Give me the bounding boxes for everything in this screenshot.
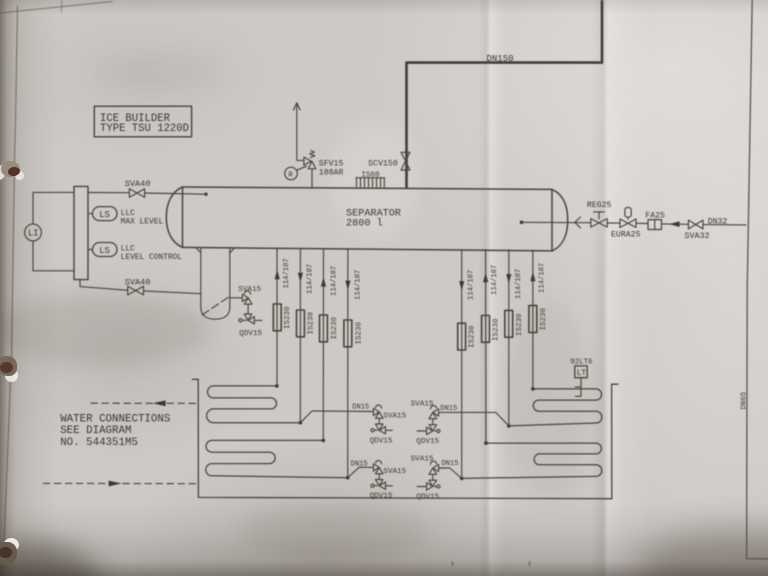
wire DN32 supply from right (703, 218, 746, 227)
wire separator outlet 6 (485, 250, 487, 444)
valve QDV15 cluster4 (416, 480, 440, 502)
orifice IS230 no3 (320, 315, 340, 342)
svg-text:IS230: IS230 (516, 313, 524, 336)
svg-text:DN15: DN15 (442, 460, 459, 468)
svg-text:SVA32: SVA32 (685, 231, 710, 241)
svg-text:R: R (288, 171, 293, 179)
valve SVA40 bottom (80, 278, 201, 295)
water connection out (dashed) (91, 400, 198, 406)
wire DN15 to cluster3 (348, 467, 374, 478)
svg-text:188AR: 188AR (319, 169, 344, 178)
svg-text:QDV15: QDV15 (416, 494, 439, 502)
valve QDV15 cluster1 (370, 424, 393, 445)
svg-text:SVA15: SVA15 (411, 456, 434, 464)
svg-text:92LT6: 92LT6 (570, 358, 592, 366)
valve SVA40 top (88, 179, 208, 197)
svg-text:QDV15: QDV15 (239, 330, 262, 338)
orifice IS230 no4 (344, 320, 364, 347)
svg-text:SVA15: SVA15 (411, 401, 434, 409)
svg-text:IS230: IS230 (356, 321, 364, 344)
svg-text:DN15: DN15 (351, 460, 368, 468)
svg-text:DN150: DN150 (487, 54, 514, 64)
paper wrinkle shadows (240, 505, 430, 560)
flow arrow up 1 (275, 270, 280, 280)
wire separator outlet 7 (508, 250, 510, 426)
svg-text:LT: LT (577, 370, 587, 378)
orifice IS230 no7 (505, 310, 524, 337)
title box ICE BUILDER (94, 106, 191, 137)
wire separator outlet 2 (299, 248, 301, 422)
orifice IS230 no6 (482, 316, 501, 343)
wire EURA25 to FA25 (636, 222, 648, 224)
flow arrow down 2 (298, 273, 303, 283)
small mark top-left (60, 0, 63, 12)
valve SVA15 cluster3 (351, 460, 407, 479)
junction dots (275, 384, 535, 480)
valve QDV15 cluster2 (416, 425, 440, 446)
wire DN15 to cluster1 (300, 411, 373, 423)
svg-text:114/107: 114/107 (330, 266, 338, 296)
svg-text:SCV150: SCV150 (368, 159, 398, 168)
wire DN150 suction line (thick) (407, 0, 603, 188)
water connection in (dashed) (43, 481, 198, 487)
svg-text:TYPE TSU 1220D: TYPE TSU 1220D (100, 123, 189, 135)
tank ice builder outline (192, 379, 617, 498)
valve QDV15 cluster0 (239, 314, 263, 338)
svg-text:114/107: 114/107 (491, 265, 499, 295)
svg-text:IS230: IS230 (492, 318, 500, 341)
valve SVA32 (685, 220, 710, 241)
punch hole 3 (0, 537, 24, 567)
svg-text:MAX LEVEL: MAX LEVEL (121, 218, 164, 227)
svg-text:QDV15: QDV15 (370, 493, 393, 501)
valve SCV150 (368, 152, 410, 170)
svg-text:SEE DIAGRAM: SEE DIAGRAM (60, 425, 131, 437)
svg-text:IS230: IS230 (540, 307, 548, 330)
svg-text:DN15: DN15 (440, 405, 457, 413)
svg-text:SFV15: SFV15 (319, 159, 344, 168)
svg-text:IS230: IS230 (284, 306, 292, 329)
svg-text:SVA15: SVA15 (383, 413, 406, 421)
wire REG25 to EURA25 (607, 222, 620, 224)
filter FA25 (645, 212, 665, 230)
svg-text:IS60: IS60 (361, 171, 380, 179)
svg-text:SVA40: SVA40 (125, 179, 151, 189)
level switch LS level control (88, 243, 182, 263)
svg-text:LS: LS (99, 210, 110, 220)
svg-text:2800 l: 2800 l (346, 217, 383, 229)
coil right lower serpentine (462, 443, 602, 478)
valve SVA15 cluster4 (411, 456, 459, 481)
svg-text:REG25: REG25 (587, 201, 612, 210)
svg-text:SVA40: SVA40 (125, 278, 151, 288)
drain pot (196, 248, 234, 319)
flow arrow up 8 (530, 272, 535, 282)
wire separator outlet 8 (532, 250, 534, 389)
instrument bubble R (285, 166, 307, 180)
text water connections note (60, 414, 170, 450)
paper edge line left (4, 6, 17, 540)
svg-text:DN32: DN32 (708, 218, 728, 227)
coil left upper serpentine (207, 386, 301, 423)
flow arrow down 7 (506, 274, 511, 284)
wire DN15 to cluster4 (439, 468, 462, 478)
drawing frame border (747, 0, 768, 559)
svg-text:LS: LS (99, 246, 110, 256)
svg-text:IS230: IS230 (307, 311, 315, 334)
flow arrow up 3 (321, 277, 326, 287)
svg-text:WATER CONNECTIONS: WATER CONNECTIONS (60, 414, 170, 426)
punch hole 1 (0, 160, 26, 182)
valve SVA15 cluster1 (352, 404, 406, 424)
flow arrow down 5 (459, 281, 464, 291)
vessel separator 2800 l (166, 187, 567, 251)
wire liquid feed into separator (520, 217, 591, 228)
punch hole 2 (0, 356, 24, 382)
instrument bubble LI (25, 224, 42, 241)
orifice IS230 no1 (273, 304, 292, 331)
dust specks bottom (452, 561, 531, 566)
svg-text:QDV15: QDV15 (416, 438, 439, 446)
flow arrow down 4 (345, 281, 350, 291)
valve SVA15 cluster2 (411, 401, 458, 425)
svg-text:114/107: 114/107 (515, 269, 523, 299)
wire separator outlet 5 (461, 249, 463, 478)
svg-text:IS230: IS230 (331, 316, 339, 339)
orifice IS230 no5 (458, 323, 477, 350)
wire vent line with arrow (294, 103, 304, 161)
valve QDV15 cluster3 (370, 480, 393, 501)
svg-text:114/107: 114/107 (467, 270, 475, 300)
orifice IS230 no8 (529, 306, 548, 333)
wire DN15 to cluster2 (439, 412, 509, 426)
level transmitter 92LT6 (570, 358, 592, 396)
wire FA25 to SVA32 with flow arrow (662, 221, 689, 227)
svg-text:114/107: 114/107 (355, 270, 363, 300)
orifice IS230 no2 (297, 310, 316, 337)
flow arrow up 6 (483, 273, 488, 283)
wire LI to level column (33, 192, 74, 270)
svg-text:NO. 544351M5: NO. 544351M5 (60, 437, 138, 449)
svg-text:LEVEL CONTROL: LEVEL CONTROL (121, 253, 183, 262)
valve EURA25 solenoid (611, 208, 641, 240)
coil left lower serpentine (206, 440, 348, 477)
svg-text:DN15: DN15 (352, 404, 369, 412)
svg-text:EURA25: EURA25 (611, 231, 641, 240)
coil right upper serpentine (509, 389, 602, 426)
svg-text:LI: LI (28, 229, 39, 239)
paper edge top-left diagonal (0, 2, 112, 14)
wire separator outlet 3 (322, 248, 324, 440)
level switch LS max level (88, 207, 163, 227)
valve REG25 (587, 201, 612, 227)
svg-text:SVA15: SVA15 (238, 286, 261, 294)
heater IS60 (356, 171, 385, 187)
svg-text:FA25: FA25 (645, 212, 665, 221)
level column standpipe (74, 186, 88, 279)
svg-text:114/107: 114/107 (283, 258, 291, 288)
wire separator outlet 1 (276, 248, 278, 386)
svg-text:114/107: 114/107 (307, 264, 315, 294)
svg-text:SVA15: SVA15 (383, 468, 406, 476)
safety valve SFV15 188AR (304, 151, 344, 187)
svg-text:114/107: 114/107 (538, 263, 546, 293)
svg-text:QDV15: QDV15 (370, 437, 393, 445)
wire separator outlet 4 (347, 249, 349, 478)
svg-text:LLC: LLC (121, 209, 135, 218)
svg-text:IS230: IS230 (469, 325, 477, 348)
valve SVA15 cluster0 (230, 286, 262, 314)
